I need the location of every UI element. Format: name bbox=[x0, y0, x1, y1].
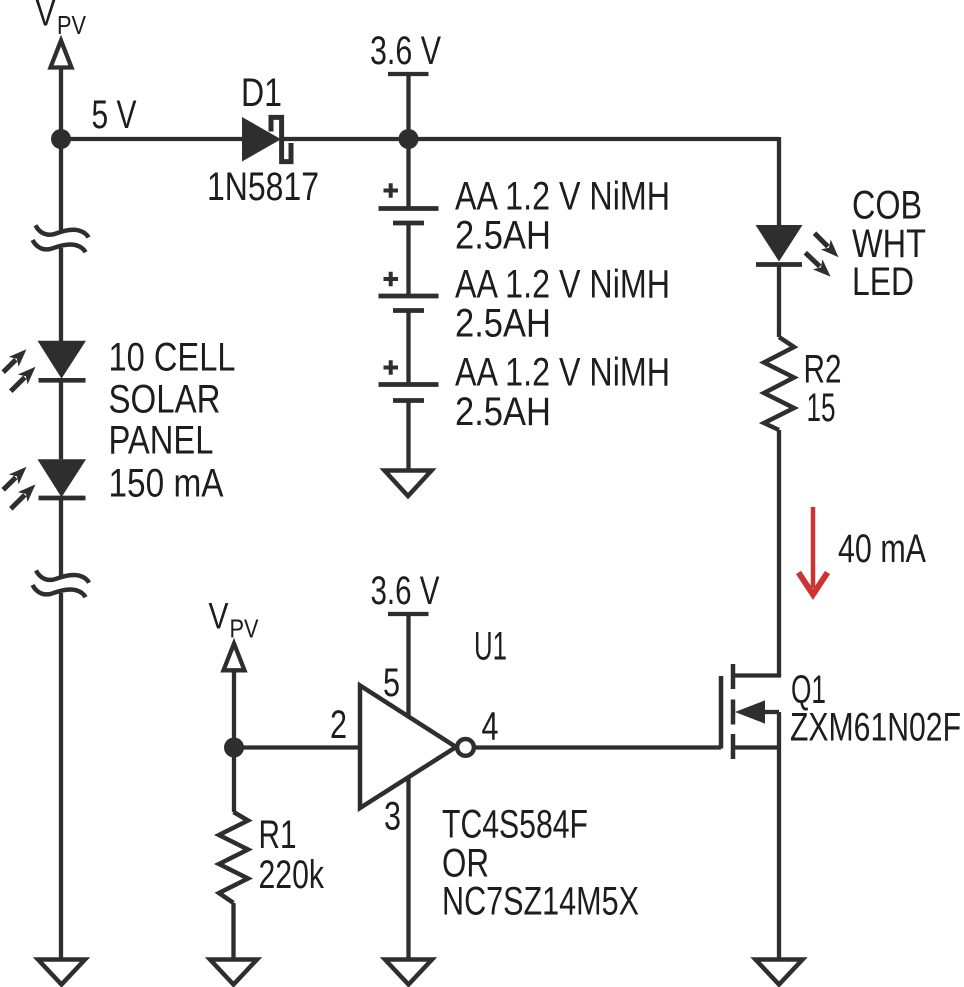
power rail bar 3.6V (inverter) bbox=[388, 612, 429, 616]
svg-text:SOLAR: SOLAR bbox=[109, 378, 221, 422]
svg-text:LED: LED bbox=[852, 260, 914, 304]
current arrow 40 mA (red) bbox=[799, 507, 828, 595]
svg-text:2.5AH: 2.5AH bbox=[455, 214, 551, 258]
svg-text:150 mA: 150 mA bbox=[109, 462, 225, 506]
node 5V junction bbox=[51, 129, 71, 149]
wire LED cathode to R2 bbox=[777, 265, 781, 338]
power flag VPV label (top left) bbox=[36, 0, 87, 40]
wire rail bar to node bbox=[406, 74, 410, 139]
transistor Q1 body-source connection bbox=[777, 712, 781, 748]
transistor Q1 channel bar (drain segment) bbox=[731, 664, 736, 689]
power flag VPV label (middle) bbox=[209, 596, 260, 644]
LED emission arrow 2 bbox=[805, 253, 830, 277]
ground (inverter) bbox=[385, 960, 432, 985]
photodiode PD2 light arrow 2 bbox=[11, 484, 36, 508]
transistor Q1 drain lead bbox=[735, 674, 779, 676]
svg-text:3: 3 bbox=[384, 795, 401, 839]
wire break symbol (upper) squiggle 2 bbox=[33, 240, 86, 252]
wire VPV arrow to node bbox=[59, 68, 63, 140]
wire R1 to ground bbox=[231, 903, 235, 960]
wire 3.6V node down to battery bbox=[406, 139, 410, 209]
transistor Q1 body lead bbox=[763, 710, 779, 714]
wire right corner down to LED anode bbox=[777, 137, 781, 225]
svg-text:5 V: 5 V bbox=[92, 93, 137, 137]
node U1 input junction bbox=[224, 738, 244, 758]
LED D2 body bbox=[756, 225, 803, 262]
svg-text:PANEL: PANEL bbox=[109, 419, 214, 463]
svg-text:40 mA: 40 mA bbox=[838, 527, 926, 571]
LED emission arrow 1 bbox=[815, 233, 839, 257]
wire U1 output to Q1 gate bbox=[474, 745, 721, 749]
photodiode PD1 cathode bar bbox=[39, 378, 86, 383]
wire cell2 to cell3 bbox=[406, 311, 410, 385]
svg-text:R2: R2 bbox=[804, 348, 842, 392]
svg-text:R1: R1 bbox=[259, 813, 297, 857]
wire R2 to Q1 drain bbox=[777, 430, 781, 676]
svg-text:15: 15 bbox=[807, 386, 836, 430]
battery cell 3 positive plate bbox=[379, 382, 439, 387]
svg-text:3.6 V: 3.6 V bbox=[370, 29, 442, 73]
svg-text:PV: PV bbox=[57, 10, 87, 40]
wire break symbol (lower) squiggle 2 bbox=[33, 585, 86, 597]
photodiode PD1 light arrow 2 bbox=[11, 367, 36, 391]
svg-text:10 CELL: 10 CELL bbox=[109, 336, 236, 380]
wire node down to R1 bbox=[232, 748, 236, 813]
svg-text:5: 5 bbox=[383, 661, 400, 705]
resistor R1 bbox=[219, 812, 248, 903]
transistor Q1 gate bar bbox=[719, 676, 724, 749]
battery cell 1 negative plate bbox=[393, 221, 424, 226]
transistor Q1 body arrow bbox=[735, 700, 765, 723]
wire inverter pin 3 to ground bbox=[406, 777, 410, 959]
node 3.6V junction bbox=[399, 129, 419, 149]
svg-text:V: V bbox=[209, 596, 229, 637]
battery cell 3 plus sign bbox=[384, 360, 399, 375]
photodiode PD1 (solar cell) body bbox=[38, 341, 87, 379]
transistor Q1 source lead bbox=[735, 745, 779, 749]
svg-text:2.5AH: 2.5AH bbox=[455, 390, 551, 434]
battery cell 2 positive plate bbox=[379, 294, 439, 299]
svg-text:220k: 220k bbox=[259, 853, 325, 897]
photodiode PD2 (solar cell) body bbox=[38, 459, 87, 497]
transistor Q1 channel bar (body segment) bbox=[731, 700, 736, 725]
svg-text:2: 2 bbox=[330, 703, 347, 747]
svg-text:3.6 V: 3.6 V bbox=[371, 569, 440, 613]
resistor R2 bbox=[764, 337, 794, 430]
power rail bar 3.6V top bbox=[388, 72, 429, 76]
wire rail to inverter pin 5 bbox=[406, 614, 410, 717]
wire node to right corner bbox=[409, 137, 780, 141]
wire VPV arrow to input node bbox=[232, 670, 236, 747]
wire lower break to ground bbox=[59, 593, 63, 960]
wire diode cathode to 3.6V node bbox=[283, 137, 409, 141]
battery cell 2 negative plate bbox=[393, 308, 424, 313]
wire break symbol (upper) squiggle 1 bbox=[36, 225, 89, 237]
diode D1 body bbox=[242, 117, 281, 162]
wire PD1 to PD2 bbox=[59, 382, 63, 459]
svg-text:U1: U1 bbox=[474, 625, 507, 669]
battery cell 1 positive plate bbox=[379, 206, 439, 211]
svg-text:AA 1.2 V NiMH: AA 1.2 V NiMH bbox=[455, 351, 670, 395]
wire cell3 to battery ground bbox=[406, 401, 410, 471]
diode D1 schottky cathode bar bbox=[271, 117, 291, 161]
wire break symbol (lower) squiggle 1 bbox=[36, 571, 89, 583]
svg-text:4: 4 bbox=[482, 705, 499, 749]
svg-text:2.5AH: 2.5AH bbox=[455, 302, 551, 346]
photodiode PD1 light arrow 1 bbox=[3, 349, 26, 372]
wire PD2 to lower break bbox=[59, 499, 63, 577]
ground (battery) bbox=[385, 471, 432, 497]
wire break to photodiode PD1 bbox=[59, 248, 63, 341]
svg-text:V: V bbox=[36, 0, 56, 34]
svg-text:COB: COB bbox=[852, 184, 922, 228]
battery cell 2 plus sign bbox=[384, 272, 399, 287]
photodiode PD2 light arrow 1 bbox=[3, 467, 26, 490]
op-amp U1 inverter triangle bbox=[360, 686, 456, 809]
wire 5V node down to upper break bbox=[59, 139, 63, 233]
svg-text:D1: D1 bbox=[241, 71, 282, 115]
ground (Q1 source) bbox=[756, 960, 803, 985]
battery cell 1 plus sign bbox=[384, 183, 399, 198]
transistor Q1 channel bar (source segment) bbox=[731, 734, 736, 759]
op-amp U1 output bubble bbox=[457, 739, 474, 756]
svg-text:AA 1.2 V NiMH: AA 1.2 V NiMH bbox=[455, 263, 670, 307]
wire Q1 source to ground bbox=[777, 748, 781, 960]
svg-text:AA 1.2 V NiMH: AA 1.2 V NiMH bbox=[455, 175, 670, 219]
photodiode PD2 cathode bar bbox=[39, 496, 86, 501]
ground (R1) bbox=[210, 960, 257, 985]
svg-text:TC4S584F: TC4S584F bbox=[442, 803, 588, 847]
wire node to U1 input bbox=[234, 745, 358, 749]
svg-text:ZXM61N02F: ZXM61N02F bbox=[790, 706, 961, 750]
svg-text:NC7SZ14M5X: NC7SZ14M5X bbox=[442, 880, 639, 924]
battery cell 3 negative plate bbox=[393, 398, 424, 403]
svg-text:1N5817: 1N5817 bbox=[207, 165, 319, 209]
wire node to diode anode bbox=[61, 137, 242, 141]
LED D2 cathode bar bbox=[756, 262, 802, 267]
power flag VPV arrow (middle) bbox=[224, 644, 245, 671]
ground (solar panel) bbox=[38, 960, 85, 985]
power flag VPV arrow (top left) bbox=[51, 41, 72, 68]
wire cell1 to cell2 bbox=[406, 223, 410, 296]
